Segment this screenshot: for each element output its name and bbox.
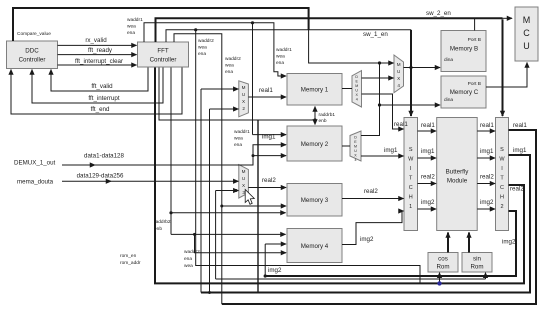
- svg-text:real2: real2: [421, 174, 435, 181]
- svg-text:rom_addr: rom_addr: [120, 260, 141, 266]
- svg-text:img1: img1: [480, 148, 494, 155]
- svg-text:Rom: Rom: [436, 264, 449, 271]
- wire raddrb1 from FFT to Memory1/Memory2: [159, 68, 315, 121]
- Memory 2: [287, 126, 342, 161]
- wire cos Rom bottom riser with blue junction: [439, 273, 441, 284]
- svg-text:img2: img2: [421, 199, 435, 206]
- svg-text:C: C: [500, 185, 504, 191]
- svg-text:wea: wea: [184, 264, 193, 269]
- wire DEMUX4 lower out1 img1 riser to MUX4 line: [361, 63, 380, 136]
- DDC Controller U1: [7, 41, 58, 69]
- svg-text:mema_douta: mema_douta: [17, 179, 54, 186]
- svg-text:img2: img2: [360, 236, 374, 243]
- svg-text:wea: wea: [198, 46, 207, 51]
- svg-text:U: U: [242, 92, 245, 97]
- svg-text:S: S: [500, 147, 504, 153]
- wire Memory1 out to DEMUX4 upper: [342, 88, 352, 90]
- sin Rom: [462, 253, 492, 273]
- svg-text:real1: real1: [480, 122, 494, 129]
- svg-text:img2: img2: [268, 267, 282, 274]
- svg-text:real2: real2: [262, 177, 276, 184]
- svg-text:waddr2: waddr2: [225, 56, 241, 62]
- svg-text:U: U: [355, 89, 358, 93]
- wire MUX2 input1 from real1 feedback: [201, 88, 238, 90]
- svg-text:waddr1: waddr1: [234, 129, 250, 135]
- svg-text:U: U: [397, 69, 400, 74]
- svg-text:X: X: [242, 183, 245, 188]
- svg-text:2: 2: [242, 106, 245, 111]
- svg-text:Compare_value: Compare_value: [17, 31, 51, 37]
- svg-text:Memory C: Memory C: [450, 89, 479, 96]
- svg-text:Module: Module: [447, 178, 468, 185]
- svg-text:M: M: [355, 84, 358, 88]
- svg-text:M: M: [242, 85, 246, 90]
- wire branch down to Memory 2 waddr input: [252, 23, 254, 135]
- svg-text:raddrb1: raddrb1: [319, 112, 336, 118]
- svg-text:real1: real1: [394, 121, 408, 128]
- svg-text:Memory B: Memory B: [450, 46, 478, 53]
- svg-text:fft_end: fft_end: [91, 106, 110, 113]
- Memory 4: [287, 229, 342, 263]
- svg-text:Memory 1: Memory 1: [301, 87, 329, 94]
- svg-text:img1: img1: [421, 148, 435, 155]
- svg-text:rom_en: rom_en: [120, 253, 137, 259]
- wire waddr1 line to Memory 1 waddr input: [144, 23, 286, 76]
- svg-text:W: W: [499, 157, 505, 163]
- svg-text:1: 1: [409, 204, 412, 210]
- wire sin Rom bottom riser: [485, 273, 487, 279]
- mux MUX4: [394, 55, 404, 93]
- svg-text:waddr1: waddr1: [127, 17, 143, 23]
- wire branch to Memory C dina: [378, 103, 381, 106]
- wire MUX4 output to Memory B dina: [404, 67, 441, 69]
- svg-text:4: 4: [397, 83, 400, 88]
- svg-text:D: D: [354, 136, 357, 140]
- svg-text:rx_valid: rx_valid: [85, 37, 107, 44]
- svg-text:real2: real2: [480, 174, 494, 181]
- svg-text:D: D: [355, 75, 358, 79]
- wire MUX2 input2 from img2 feedback: [210, 108, 239, 110]
- wire Memory4 input2 from img2 riser: [265, 243, 286, 245]
- wire MUX3 input2 from feedback line: [216, 190, 239, 192]
- svg-text:Butterfly: Butterfly: [446, 169, 470, 176]
- mux MUX3: [239, 165, 249, 198]
- svg-text:raddrb2: raddrb2: [154, 219, 171, 225]
- wire feedback bus vertical: [257, 120, 259, 293]
- svg-text:wea: wea: [276, 55, 285, 60]
- svg-text:Memory 2: Memory 2: [301, 141, 329, 148]
- svg-text:waddr2: waddr2: [184, 249, 200, 255]
- svg-text:fft_valid: fft_valid: [91, 83, 113, 90]
- svg-text:M: M: [242, 169, 246, 174]
- wire Memory2 input3 from img2 feedback riser: [253, 155, 286, 157]
- svg-text:ena: ena: [276, 61, 284, 66]
- svg-text:fft_ready: fft_ready: [88, 47, 113, 54]
- SWITCH 1: [404, 118, 418, 231]
- wire Memory C to MCU: [486, 63, 527, 88]
- svg-text:ena: ena: [234, 143, 242, 148]
- svg-text:U: U: [242, 176, 245, 181]
- demux DEMUX4 upper: [352, 71, 362, 107]
- svg-text:DDC: DDC: [25, 48, 39, 55]
- Memory 3: [287, 184, 342, 217]
- svg-text:FFT: FFT: [157, 48, 169, 55]
- node junction on waddr1 line: [251, 21, 254, 24]
- svg-text:H: H: [409, 195, 413, 201]
- svg-text:Controller: Controller: [19, 57, 46, 64]
- SWITCH 2: [496, 118, 509, 231]
- svg-text:sin: sin: [473, 256, 481, 263]
- svg-text:dina: dina: [444, 97, 453, 103]
- wire branch to Memory B top: [474, 18, 476, 30]
- svg-text:M: M: [354, 145, 357, 149]
- svg-text:data129-data256: data129-data256: [77, 173, 124, 180]
- svg-text:waddr2: waddr2: [198, 38, 214, 44]
- svg-text:M: M: [397, 62, 401, 67]
- svg-text:H: H: [500, 195, 504, 201]
- svg-text:real1: real1: [421, 122, 435, 129]
- svg-text:img2: img2: [480, 199, 494, 206]
- svg-text:Controller: Controller: [150, 57, 177, 64]
- svg-text:real1: real1: [259, 87, 273, 94]
- svg-text:Port B: Port B: [468, 37, 481, 43]
- Memory 1: [287, 74, 342, 106]
- svg-text:ena: ena: [198, 52, 206, 57]
- svg-text:X: X: [242, 99, 245, 104]
- svg-text:ena: ena: [184, 257, 192, 262]
- svg-text:img1: img1: [384, 147, 398, 154]
- wire sin Rom to Butterfly: [468, 233, 470, 253]
- svg-text:real1: real1: [513, 122, 527, 129]
- svg-text:Rom: Rom: [470, 264, 483, 271]
- wire img2 sub line to sin Rom: [216, 278, 486, 280]
- svg-text:Memory 4: Memory 4: [301, 243, 329, 250]
- wire cos Rom to Butterfly: [447, 233, 449, 253]
- svg-text:cos: cos: [438, 256, 448, 263]
- Port B Memory B: [441, 31, 486, 72]
- svg-text:real2: real2: [510, 186, 524, 193]
- demux DEMUX4 lower: [350, 131, 361, 162]
- svg-text:real2: real2: [364, 188, 378, 195]
- svg-text:sw_1_en: sw_1_en: [363, 31, 388, 38]
- svg-text:X: X: [397, 76, 400, 81]
- svg-text:S: S: [409, 147, 413, 153]
- MCU: [515, 7, 538, 61]
- svg-text:4: 4: [355, 158, 357, 162]
- svg-text:waddr1: waddr1: [276, 47, 292, 53]
- wire raddrb2 from FFT to Memory3/Memory4: [170, 68, 172, 235]
- svg-text:U: U: [354, 149, 357, 153]
- svg-text:fft_interrupt: fft_interrupt: [88, 95, 119, 102]
- svg-text:ena: ena: [127, 31, 135, 36]
- svg-text:wea: wea: [127, 25, 136, 30]
- wire Memory2 out to DEMUX4 lower: [342, 145, 350, 147]
- wire sw_2_en drop into SWITCH 2: [502, 19, 504, 116]
- mouse cursor: [245, 190, 254, 205]
- svg-text:2: 2: [500, 204, 503, 210]
- svg-text:C: C: [409, 185, 413, 191]
- wire DEMUX4 upper out1 to MUX4: [362, 77, 394, 79]
- svg-text:dina: dina: [444, 57, 453, 63]
- svg-text:DEMUX_1_out: DEMUX_1_out: [14, 160, 56, 167]
- svg-text:fft_interrupt_clear: fft_interrupt_clear: [75, 58, 123, 65]
- Butterfly Module: [437, 118, 478, 231]
- svg-text:Memory 3: Memory 3: [301, 197, 329, 204]
- svg-text:U: U: [523, 41, 530, 51]
- svg-text:sw_2_en: sw_2_en: [426, 10, 451, 17]
- svg-text:data1-data128: data1-data128: [84, 153, 124, 160]
- svg-text:img1: img1: [513, 147, 527, 154]
- svg-text:4: 4: [356, 98, 358, 102]
- mux MUX2: [239, 81, 249, 117]
- svg-text:W: W: [408, 157, 414, 163]
- svg-text:Port B: Port B: [468, 81, 481, 87]
- svg-text:img2: img2: [502, 239, 516, 246]
- svg-text:img1: img1: [262, 134, 276, 141]
- FFT Controller U2: [138, 42, 189, 67]
- svg-text:wea: wea: [225, 64, 234, 69]
- svg-text:C: C: [523, 28, 530, 38]
- svg-text:enb: enb: [319, 118, 327, 124]
- cos Rom: [428, 253, 458, 273]
- wire Compare_value net: DDC top to MUX4 input1: [13, 8, 309, 41]
- Port B Memory C: [441, 76, 486, 108]
- svg-text:ena: ena: [225, 70, 233, 75]
- svg-text:M: M: [523, 15, 531, 25]
- svg-text:wea: wea: [234, 137, 243, 142]
- wire waddr2 line down to Memory 3 input2: [174, 34, 222, 304]
